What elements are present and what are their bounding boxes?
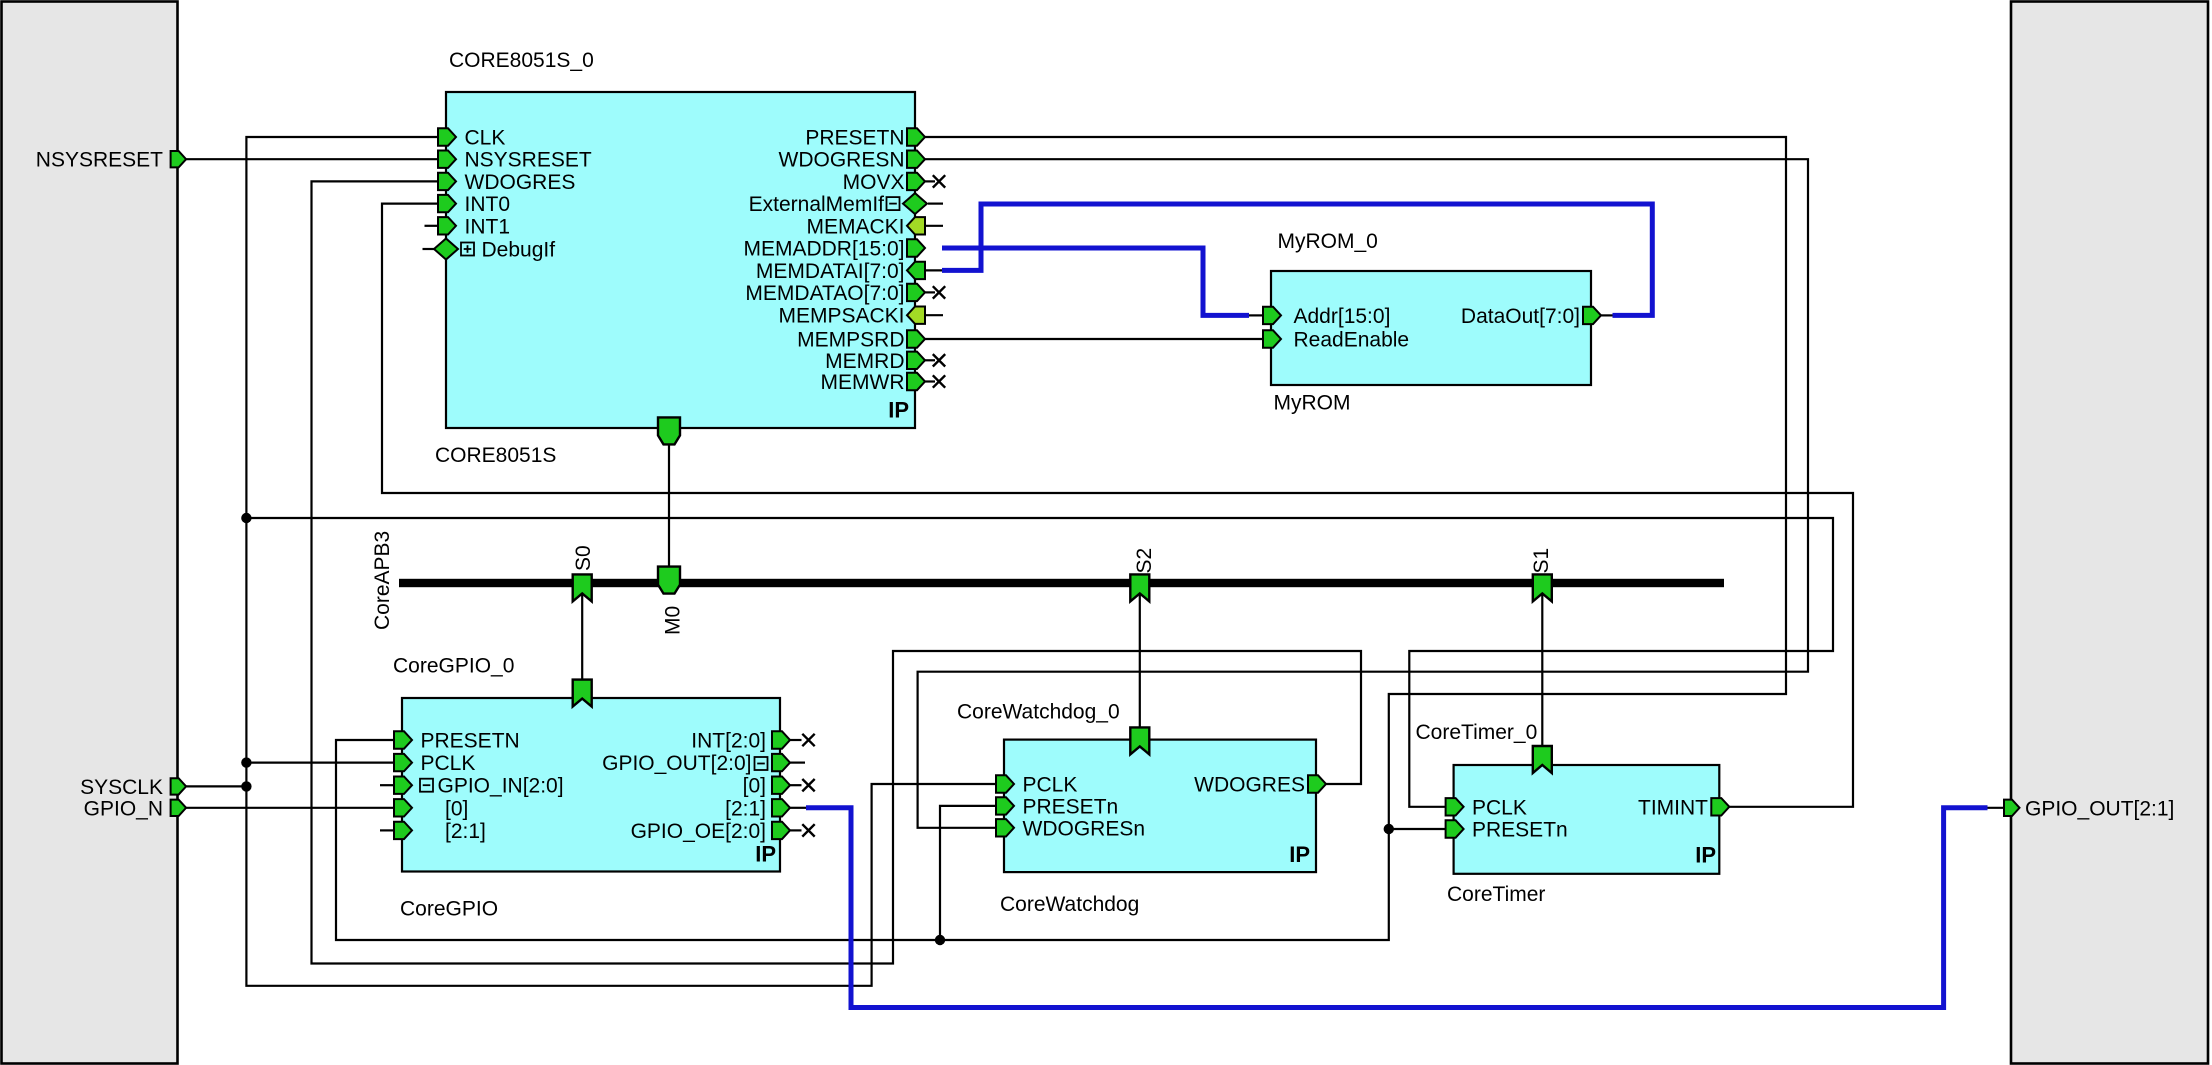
pin MEMDATAI[7:0]: [907, 262, 925, 279]
svg-text:ReadEnable: ReadEnable: [1294, 329, 1410, 352]
bus flag S0: [573, 574, 592, 601]
pin Timer PRESETn: [1446, 820, 1464, 837]
wire GPIO_OUT0 stub: [790, 784, 802, 786]
wire MOVX stub: [925, 180, 935, 182]
pin MOVX: [907, 173, 925, 190]
wire MEMADDR black stub: [1249, 314, 1263, 316]
svg-text:S0: S0: [572, 545, 595, 571]
wire SYSCLK port branch: [186, 785, 246, 787]
pin MEMDATAO[7:0]: [907, 284, 925, 301]
svg-text:MEMDATAO[7:0]: MEMDATAO[7:0]: [745, 282, 904, 305]
wire MEMPSRD-ReadEnable net: [925, 338, 1263, 340]
connector CORE8051S APB master: [658, 417, 680, 444]
pin MEMRD: [907, 352, 925, 369]
wire WDOGRESN net: [918, 159, 1808, 828]
svg-text:WDOGRES: WDOGRES: [1194, 774, 1305, 797]
svg-text:MyROM_0: MyROM_0: [1278, 230, 1378, 253]
pin MEMWR: [907, 373, 925, 390]
block CoreWatchdog_0: [1004, 740, 1316, 873]
svg-text:PCLK: PCLK: [1472, 796, 1527, 819]
svg-text:GPIO_OE[2:0]: GPIO_OE[2:0]: [631, 820, 766, 843]
pin WDOGRES: [438, 173, 456, 190]
svg-text:CoreGPIO_0: CoreGPIO_0: [393, 655, 514, 678]
svg-text:S2: S2: [1133, 548, 1156, 574]
pin MEMPSRD: [907, 330, 925, 347]
block CORE8051S_0: [446, 92, 915, 428]
pin GPIO_OUT[2:0]: [772, 754, 790, 771]
svg-text:DataOut[7:0]: DataOut[7:0]: [1461, 305, 1580, 328]
pin MEMACKI: [907, 217, 925, 234]
flag CoreGPIO APB slave: [573, 680, 592, 707]
svg-text:CoreWatchdog: CoreWatchdog: [1000, 893, 1139, 916]
wire GPIO_OUT21 port stub: [1988, 807, 2005, 809]
svg-text:GPIO_OUT[2:0]: GPIO_OUT[2:0]: [602, 752, 751, 775]
wire MEMADDR bus (blue): [942, 248, 1249, 315]
wire INT1 stub: [425, 225, 439, 227]
wire WDOGRES net: [312, 181, 1362, 963]
svg-text:GPIO_IN[2:0]: GPIO_IN[2:0]: [438, 775, 564, 798]
bus flag S2: [1130, 574, 1149, 601]
flag CoreWatchdog APB slave: [1130, 727, 1149, 754]
port GPIO_N: [171, 800, 187, 816]
pin GPIO_OUT[0]: [772, 777, 790, 794]
svg-text:MEMADDR[15:0]: MEMADDR[15:0]: [743, 238, 904, 261]
bus connector M0: [658, 567, 680, 594]
pin GPIO_IN[2:0]: [394, 777, 412, 794]
port NSYSRESET: [171, 151, 187, 167]
pin GPIO_OE[2:0]: [772, 822, 790, 839]
wire S0 to CoreGPIO: [581, 594, 583, 682]
svg-text:GPIO_OUT[2:1]: GPIO_OUT[2:1]: [2025, 797, 2174, 820]
svg-text:DebugIf: DebugIf: [482, 239, 556, 262]
svg-text:MyROM: MyROM: [1274, 392, 1351, 415]
pin Timer PCLK: [1446, 798, 1464, 815]
svg-text:M0: M0: [662, 606, 685, 635]
pin GPIO_IN[0]: [394, 799, 412, 816]
wire GPIO_N net: [186, 807, 394, 809]
pin GPIO_OUT[2:1]: [772, 799, 790, 816]
svg-text:CoreTimer_0: CoreTimer_0: [1416, 721, 1538, 744]
pin MEMADDR[15:0]: [907, 239, 925, 256]
svg-text:[2:1]: [2:1]: [725, 797, 766, 820]
wire PRESETN branch CoreWatchdog: [940, 806, 996, 940]
svg-text:SYSCLK: SYSCLK: [80, 776, 163, 799]
block CoreGPIO_0: [402, 698, 780, 872]
pin Addr[15:0]: [1263, 307, 1281, 324]
wire MEMDATAI stub: [925, 269, 942, 271]
wire MEMRD stub: [925, 359, 935, 361]
svg-text:GPIO_N: GPIO_N: [84, 797, 163, 820]
svg-text:PRESETN: PRESETN: [805, 127, 904, 150]
block CoreTimer_0: [1454, 765, 1720, 874]
junction PRESETN CoreTimer: [1384, 824, 1394, 834]
block MyROM_0: [1271, 271, 1591, 385]
pin DebugIf: [434, 239, 458, 260]
wire CLK/SYSCLK net trunk: [246, 137, 996, 986]
svg-text:S1: S1: [1530, 548, 1553, 574]
svg-text:IP: IP: [1289, 842, 1310, 867]
svg-text:IP: IP: [888, 398, 909, 423]
wire MEMDATAO stub: [925, 291, 935, 293]
right IO panel: [2011, 2, 2208, 1064]
wire ExternalMemIf stub: [928, 203, 943, 205]
pin PRESETN: [907, 128, 925, 145]
svg-text:CoreWatchdog_0: CoreWatchdog_0: [957, 701, 1120, 724]
wire PCLK branch to CoreGPIO: [246, 761, 394, 763]
svg-text:[0]: [0]: [445, 797, 468, 820]
wire NSYSRESET net: [186, 158, 439, 160]
svg-text:WDOGRESn: WDOGRESn: [1023, 817, 1146, 840]
pin INT0: [438, 195, 456, 212]
pin WD PCLK: [996, 775, 1014, 792]
svg-text:CLK: CLK: [465, 127, 506, 150]
svg-text:MEMPSACKI: MEMPSACKI: [778, 305, 904, 328]
pin TIMINT: [1711, 798, 1729, 815]
svg-text:IP: IP: [1695, 843, 1716, 868]
pin WD WDOGRES: [1308, 775, 1326, 792]
pin WD PRESETn: [996, 797, 1014, 814]
svg-text:NSYSRESET: NSYSRESET: [465, 149, 592, 172]
wire GPIO_IN[2:1] dash stub: [380, 829, 394, 831]
wire S1 to CoreTimer: [1541, 594, 1543, 748]
svg-text:MEMACKI: MEMACKI: [806, 215, 904, 238]
svg-text:INT[2:0]: INT[2:0]: [691, 730, 766, 753]
svg-text:PRESETN: PRESETN: [421, 730, 520, 753]
wire S2 to CoreWatchdog: [1139, 594, 1141, 729]
left IO panel: [2, 2, 178, 1064]
svg-text:TIMINT: TIMINT: [1638, 796, 1708, 819]
svg-text:CORE8051S_0: CORE8051S_0: [449, 49, 594, 72]
bus CoreAPB3: [399, 579, 1724, 587]
svg-text:NSYSRESET: NSYSRESET: [36, 149, 163, 172]
flag CoreTimer APB slave: [1533, 746, 1552, 773]
pin WDOGRESN: [907, 151, 925, 168]
pin GPIO PCLK: [394, 754, 412, 771]
svg-text:INT1: INT1: [465, 215, 511, 238]
junction PRESETN CoreWatchdog: [935, 935, 945, 945]
wire MEMWR stub: [925, 380, 935, 382]
wire DataOut black stub: [1601, 314, 1613, 316]
junction SYSCLK port: [241, 781, 251, 791]
pin ExternalMemIf: [903, 193, 927, 214]
wire PRESETN net trunk: [336, 137, 1786, 940]
junction CLK/PCLK branch: [241, 513, 251, 523]
svg-text:ExternalMemIf: ExternalMemIf: [749, 193, 885, 216]
pin INT[2:0]: [772, 731, 790, 748]
svg-text:WDOGRES: WDOGRES: [465, 171, 576, 194]
wire MEMPSACKI stub: [926, 314, 943, 316]
svg-text:WDOGRESN: WDOGRESN: [779, 149, 905, 172]
svg-text:CoreTimer: CoreTimer: [1447, 883, 1545, 906]
pin INT1: [438, 217, 456, 234]
wire GPIO_OUT bus (blue): [806, 808, 1988, 1008]
wire PCLK branch to CoreTimer: [246, 518, 1833, 807]
wire MEMACKI stub: [926, 225, 943, 227]
wire GPIO_OUT[2:0] dash stub: [790, 761, 805, 763]
wire DebugIf stub: [423, 248, 436, 250]
svg-text:[0]: [0]: [743, 775, 766, 798]
pin NSYSRESET: [438, 151, 456, 168]
bus flag S1: [1533, 574, 1552, 601]
pin DataOut[7:0]: [1583, 307, 1601, 324]
svg-text:CORE8051S: CORE8051S: [435, 444, 556, 467]
port SYSCLK: [171, 778, 187, 794]
svg-text:CoreAPB3: CoreAPB3: [371, 531, 394, 630]
wire DataOut-MEMDATAI bus (blue): [942, 204, 1652, 315]
wire INT0-TIMINT net: [382, 204, 1853, 807]
svg-text:PRESETn: PRESETn: [1472, 819, 1568, 842]
wire INT[2:0] stub: [790, 739, 802, 741]
wire GPIO_OE stub: [790, 829, 802, 831]
pin GPIO PRESETN: [394, 731, 412, 748]
pin CLK: [438, 128, 456, 145]
pin ReadEnable: [1263, 330, 1281, 347]
pin GPIO_IN[2:1]: [394, 822, 412, 839]
pin WD WDOGRESn: [996, 819, 1014, 836]
svg-text:PCLK: PCLK: [1023, 774, 1078, 797]
svg-text:MEMWR: MEMWR: [821, 371, 905, 394]
junction PCLK CoreGPIO: [241, 757, 251, 767]
svg-text:MEMPSRD: MEMPSRD: [797, 329, 904, 352]
port GPIO_OUT[2:1]: [2004, 800, 2020, 816]
wire GPIO_IN dash stub: [380, 784, 394, 786]
pin MEMPSACKI: [907, 307, 925, 324]
svg-text:IP: IP: [755, 842, 776, 867]
svg-text:PCLK: PCLK: [421, 752, 476, 775]
svg-text:CoreGPIO: CoreGPIO: [400, 898, 498, 921]
wire PRESETN branch CoreTimer: [1389, 828, 1446, 830]
svg-text:MOVX: MOVX: [843, 171, 905, 194]
svg-text:[2:1]: [2:1]: [445, 820, 486, 843]
wire M0 to CORE8051S: [668, 444, 670, 567]
svg-text:INT0: INT0: [465, 193, 511, 216]
svg-text:MEMDATAI[7:0]: MEMDATAI[7:0]: [756, 260, 905, 283]
svg-text:MEMRD: MEMRD: [825, 350, 904, 373]
svg-text:Addr[15:0]: Addr[15:0]: [1294, 305, 1391, 328]
wire GPIO_OUT21 black stub: [790, 807, 806, 809]
svg-text:PRESETn: PRESETn: [1023, 795, 1119, 818]
